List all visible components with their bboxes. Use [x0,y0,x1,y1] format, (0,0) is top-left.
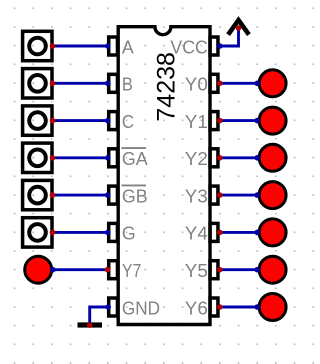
svg-text:G: G [122,223,136,244]
LED probe D_Y7 [25,256,52,283]
junction at pin Y5 [217,267,223,273]
wire A input [53,45,108,48]
wire GA input [53,156,108,159]
LED probe D_Y3 [259,182,286,209]
pin C (left 3) [109,111,134,132]
logic input switch SB [23,69,52,98]
wire Y7 [53,268,108,271]
node at LED Y7 [50,267,56,273]
junction at switch G [50,230,56,236]
logic input switch SGB [23,180,52,209]
junction at ground [87,322,93,328]
pin-end node GB [105,192,111,198]
wire B input [53,82,108,85]
node at LED Y3 [254,192,260,198]
pin-end node VCC [217,43,223,49]
pin A (left 1) [109,36,135,57]
pin-end node B [105,81,111,87]
svg-text:B: B [122,74,133,95]
IC U1 74238 [118,27,210,325]
svg-text:VCC: VCC [170,36,207,57]
pin-end node G [105,230,111,236]
pin Y1 (right 14) [185,111,218,132]
junction at pin Y7 [105,267,111,273]
node at LED Y1 [254,118,260,124]
pin B (left 2) [109,74,133,95]
pin GND (left 8) [109,297,160,318]
svg-text:Y3: Y3 [185,185,208,206]
pin-end node GND [105,304,111,310]
pin Y7 (left 7) [109,260,142,281]
svg-text:74238: 74238 [152,52,180,122]
svg-text:Y7: Y7 [122,260,141,281]
svg-text:A: A [122,36,134,57]
svg-text:GA: GA [122,148,148,169]
node at LED Y0 [254,81,260,87]
svg-text:Y1: Y1 [185,111,208,132]
wire Y5 [220,268,259,271]
LED probe D_Y4 [259,219,286,246]
svg-text:Y6: Y6 [185,297,208,318]
pin-end node GA [105,155,111,161]
junction at pin Y0 [217,81,223,87]
pin Y0 (right 15) [185,74,218,95]
junction at pin Y3 [217,192,223,198]
ground [78,322,103,327]
pin-end node C [105,118,111,124]
pin G (left 6) [109,223,136,244]
pin Y3 (right 12) [185,185,218,206]
junction at switch C [50,118,56,124]
junction at pin Y1 [217,118,223,124]
logic input switch SA [23,31,52,60]
vcc rail arrow [228,20,249,34]
pin Y6 (right 9) [185,297,218,318]
junction at switch B [50,81,56,87]
pin-end node A [105,43,111,49]
wire Y2 [220,156,259,159]
junction at vcc [236,25,242,31]
LED probe D_Y5 [259,256,286,283]
logic input switch SC [23,106,52,135]
LED probe D_Y6 [259,294,286,321]
pin Y2 (right 13) [185,148,218,169]
junction at pin Y2 [217,155,223,161]
node at LED Y5 [254,267,260,273]
pin GA (left 4) [109,148,149,169]
junction at switch GB [50,192,56,198]
logic input switch SG [23,218,52,247]
junction at switch GA [50,155,56,161]
LED probe D_Y1 [259,107,286,134]
logic input switch SGA [23,143,52,172]
junction at pin Y6 [217,304,223,310]
LED probe D_Y0 [259,70,286,97]
svg-text:GB: GB [122,185,148,206]
LED probe D_Y2 [259,144,286,171]
svg-text:GND: GND [122,297,160,318]
node at LED Y6 [254,304,260,310]
svg-text:Y0: Y0 [185,74,208,95]
svg-text:Y5: Y5 [185,260,208,281]
node at LED Y2 [254,155,260,161]
wire G input [53,231,108,234]
wire Y4 [220,231,259,234]
junction at switch A [50,43,56,49]
wire VCC [220,28,239,46]
pin Y5 (right 10) [185,260,218,281]
svg-text:C: C [122,111,134,132]
wire C input [53,119,108,122]
wire GND [90,307,109,324]
wire Y0 [220,82,259,85]
svg-text:Y2: Y2 [185,148,208,169]
pin Y4 (right 11) [185,223,218,244]
wire Y3 [220,194,259,197]
wire Y6 [220,306,259,309]
junction at pin Y4 [217,230,223,236]
wire Y1 [220,119,259,122]
pin VCC (right 16) [170,36,218,57]
wire GB input [53,194,108,197]
pin GB (left 5) [109,185,148,206]
svg-text:Y4: Y4 [185,223,208,244]
node at LED Y4 [254,230,260,236]
